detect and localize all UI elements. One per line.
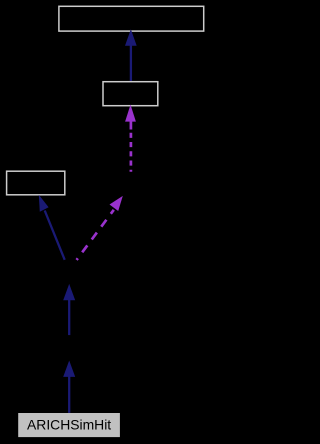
svg-text:ARICHSimHit: ARICHSimHit [27, 417, 111, 433]
usage edge (dashed diagonal): hidden node -> hidden member node [77, 196, 123, 260]
node ARICHSimHit (current class, grey filled box) [18, 413, 120, 437]
class box (top, base class) [59, 6, 204, 31]
usage edge (dashed, darkorchid): hidden node -> middle box [125, 105, 136, 172]
inheritance edge: middle box -> top box (solid, midnightblue) [125, 29, 137, 81]
class box (middle) [103, 82, 158, 106]
class box (left) [7, 171, 65, 195]
inheritance edge: hidden node2 -> hidden node1 (vertical) [63, 284, 75, 335]
inheritance edge: ARICHSimHit -> hidden node2 (vertical) [63, 361, 75, 413]
inheritance edge: hidden node -> left box (solid diagonal) [39, 195, 65, 260]
